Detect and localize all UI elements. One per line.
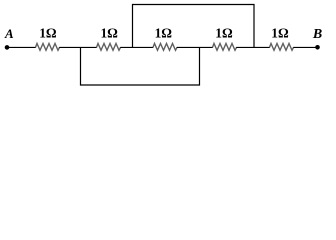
resistor R5	[270, 44, 294, 51]
bottom bypass wire from node n1 to node n3	[81, 47, 200, 85]
wire R4 to R5 through node n4	[236, 46, 270, 48]
svg-text:1Ω: 1Ω	[155, 25, 173, 40]
resistor R4	[213, 44, 237, 51]
node A	[5, 45, 10, 50]
node B	[315, 45, 320, 50]
svg-text:1Ω: 1Ω	[215, 25, 233, 40]
wire R1 to R2 through node n1	[59, 46, 97, 48]
svg-text:1Ω: 1Ω	[100, 25, 118, 40]
wire R3 to R4 through node n3	[177, 46, 213, 48]
svg-text:1Ω: 1Ω	[271, 25, 289, 40]
wire R2 to R3 through node n2	[120, 46, 153, 48]
top bypass wire from node n2 to node n4	[133, 5, 255, 48]
svg-text:1Ω: 1Ω	[39, 25, 57, 40]
svg-text:B: B	[312, 27, 322, 42]
resistor R2	[97, 44, 121, 51]
svg-text:A: A	[4, 26, 14, 41]
wire R5 to B	[293, 46, 317, 48]
resistor R3	[153, 44, 177, 51]
wire A to R1	[7, 46, 36, 48]
resistor R1	[36, 44, 60, 51]
